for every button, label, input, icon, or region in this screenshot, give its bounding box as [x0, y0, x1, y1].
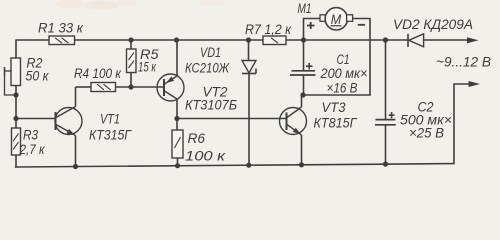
svg-text:×16 В: ×16 В — [327, 81, 358, 96]
svg-text:VD1: VD1 — [200, 45, 221, 60]
resistor R5 — [127, 40, 137, 87]
wire top rail right segment — [286, 39, 408, 41]
transistor VT3 — [280, 95, 307, 165]
node R5 top rail junction — [128, 37, 133, 42]
node C2 top rail — [383, 37, 388, 42]
wire VT1 base — [16, 118, 55, 120]
svg-text:×25 В: ×25 В — [409, 126, 444, 141]
svg-text:R7 1,2 к: R7 1,2 к — [245, 22, 292, 37]
svg-text:R3: R3 — [23, 128, 38, 143]
zener diode VD1 — [242, 40, 256, 165]
resistor R7 — [263, 36, 286, 45]
resistor R1 — [49, 36, 75, 45]
resistor R2 (with wiper) — [5, 58, 21, 95]
wire top rail left segment — [16, 39, 49, 41]
node VT1 emitter bottom — [73, 164, 78, 169]
wire output riser — [454, 84, 468, 164]
svg-text:VD2 КД209А: VD2 КД209А — [393, 17, 473, 32]
wire top rail middle segment — [75, 39, 264, 41]
diode VD2 — [408, 34, 424, 47]
svg-text:КТ815Г: КТ815Г — [314, 116, 359, 131]
node VT2 collector / R6 junction — [174, 116, 179, 121]
input arrow bottom — [469, 81, 481, 87]
capacitor C1 — [290, 40, 316, 95]
node M1 left / top rail — [301, 37, 306, 42]
svg-text:R1 33 к: R1 33 к — [38, 21, 84, 36]
svg-text:100 к: 100 к — [185, 149, 226, 164]
svg-text:50 к: 50 к — [26, 69, 50, 84]
node C1 bottom / VT3 collector — [300, 92, 305, 97]
node R2 wiper junction — [13, 92, 18, 97]
svg-text:2,7 к: 2,7 к — [19, 142, 45, 157]
svg-text:15 к: 15 к — [138, 60, 156, 75]
wire top rail output segment — [424, 39, 469, 41]
resistor R3 — [12, 128, 21, 155]
svg-text:C1: C1 — [337, 52, 350, 67]
node base VT1 junction — [13, 116, 18, 121]
svg-text:M1: M1 — [298, 1, 312, 16]
svg-text:КТ3107Б: КТ3107Б — [185, 98, 237, 113]
node VD1 bottom rail — [246, 163, 251, 168]
wire left branch vertical — [15, 40, 17, 58]
node C2 bottom rail — [383, 162, 388, 167]
transistor VT1 — [55, 87, 82, 167]
motor M1 — [304, 8, 371, 95]
svg-text:R6: R6 — [188, 131, 206, 146]
input arrow top — [467, 37, 479, 43]
wire VT3 base — [177, 118, 287, 120]
transistor VT2 — [157, 40, 184, 119]
node VT3 emitter bottom rail — [299, 162, 304, 167]
svg-text:КС210Ж: КС210Ж — [185, 60, 230, 75]
svg-text:КТ315Г: КТ315Г — [89, 128, 133, 143]
node R4/R5 junction — [128, 84, 133, 89]
capacitor C2 — [375, 40, 396, 164]
resistor R4 — [76, 83, 165, 92]
svg-text:VT3: VT3 — [322, 100, 346, 115]
svg-text:~9...12 В: ~9...12 В — [436, 55, 491, 70]
svg-text:200 мк×: 200 мк× — [320, 66, 368, 81]
node VD1 top rail — [246, 37, 251, 42]
svg-text:M: M — [331, 12, 342, 27]
svg-text:VT1: VT1 — [100, 112, 120, 127]
wire bottom rail — [16, 164, 455, 167]
svg-text:R4 100 к: R4 100 к — [74, 66, 122, 81]
node R6 bottom rail — [175, 163, 180, 168]
resistor R6 — [172, 119, 183, 166]
node VT2 emitter top rail — [174, 37, 179, 42]
